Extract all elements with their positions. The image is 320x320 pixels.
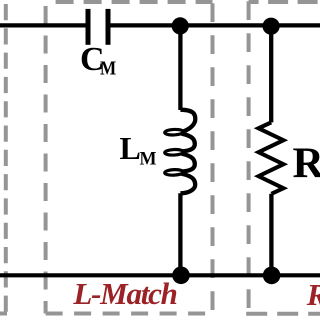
node: top junction of inductor branch [172, 17, 189, 34]
node: bottom junction of inductor branch [172, 267, 190, 285]
svg-text:M: M [100, 58, 116, 80]
dashed boundary: R-Match box (left part visible) [246, 0, 320, 314]
resistor R (zigzag) [259, 122, 284, 193]
wire: from inductor down to bottom node [178, 193, 182, 275]
dashed boundary: L-Match box [46, 0, 213, 314]
svg-text:L: L [120, 130, 141, 166]
wire: from resistor down to bottom node [269, 194, 273, 275]
svg-text:R-Match: R-Match [306, 277, 320, 312]
wire: top rail, right of capacitor [108, 23, 320, 27]
svg-text:R: R [293, 139, 320, 187]
wire: bottom rail [0, 273, 320, 277]
wire: top rail, left of capacitor [0, 23, 88, 27]
node: bottom junction of resistor branch [263, 267, 281, 285]
wire: from top node down to resistor [269, 26, 273, 123]
capacitor C_M plates [88, 9, 108, 45]
svg-text:L-Match: L-Match [72, 276, 177, 311]
svg-text:M: M [140, 149, 157, 170]
inductor L_M (loopy coil) [165, 110, 196, 194]
dashed boundary: left section box (right edge), cut off at left [0, 0, 7, 314]
node: top junction of resistor branch [263, 18, 280, 35]
wire: from top node down to inductor [178, 26, 182, 110]
